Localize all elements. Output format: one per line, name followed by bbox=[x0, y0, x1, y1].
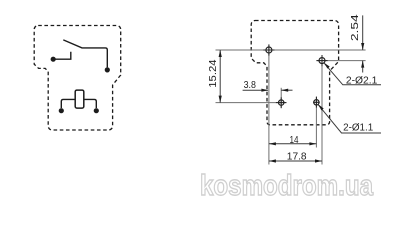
centerline through hole H2 bbox=[317, 60, 366, 62]
svg-text:15.24: 15.24 bbox=[208, 59, 219, 88]
svg-text:2-Ø1.1: 2-Ø1.1 bbox=[343, 122, 373, 134]
extension line from hole H4 bbox=[315, 96, 317, 147]
switch lever / moving contact wire bbox=[63, 40, 107, 68]
svg-text:2.54: 2.54 bbox=[350, 14, 361, 41]
dimension 3.8 line with outside arrows bbox=[243, 89, 293, 92]
hole H4 (coil pin, Ø1.1) bbox=[313, 97, 319, 108]
coil right terminal dot bbox=[94, 108, 99, 113]
svg-text:kosmodrom.ua: kosmodrom.ua bbox=[200, 170, 374, 202]
centerline through hole H3 bbox=[216, 102, 287, 104]
coil right wire bbox=[84, 99, 97, 108]
relay K1 schematic: dashed body outline bbox=[34, 26, 121, 131]
dimension 15.24 line with arrows bbox=[219, 50, 222, 103]
extension line from hole H3 bbox=[280, 88, 282, 109]
svg-text:17.8: 17.8 bbox=[287, 151, 307, 162]
leader for 2-Ø1.1 with arrow at hole H4 bbox=[318, 105, 381, 133]
coil left terminal dot bbox=[59, 108, 64, 113]
switch common terminal dot bbox=[51, 57, 56, 62]
switch NO terminal dot bbox=[105, 67, 110, 72]
dimension 2.54 line with arrows bbox=[361, 15, 364, 72]
svg-text:14: 14 bbox=[290, 135, 299, 146]
hole H1 (pin, Ø2.1) bbox=[263, 44, 274, 55]
svg-text:3.8: 3.8 bbox=[244, 80, 257, 91]
crosshair tick of hole H4 bbox=[313, 101, 319, 103]
leader for 2-Ø2.1 with arrow at hole H2 bbox=[324, 63, 381, 84]
coil left wire bbox=[61, 99, 75, 108]
extension line from hole H2 bbox=[321, 55, 323, 165]
switch contact wire (common terminal) bbox=[53, 52, 71, 60]
coil L1 rectangle bbox=[75, 90, 84, 108]
hole H2 (pin, Ø2.1) bbox=[316, 55, 327, 66]
footprint: dashed relay body outline (bottom view) bbox=[251, 21, 338, 125]
extension line from hole H1 bbox=[268, 45, 270, 165]
hole H3 (coil pin, Ø1.1) bbox=[276, 97, 287, 108]
dimension 17.8 line with arrows bbox=[269, 159, 322, 162]
svg-text:2-Ø2.1: 2-Ø2.1 bbox=[346, 74, 378, 86]
centerline through hole H1 bbox=[216, 49, 366, 51]
dimension 14 line with arrows bbox=[269, 142, 317, 145]
